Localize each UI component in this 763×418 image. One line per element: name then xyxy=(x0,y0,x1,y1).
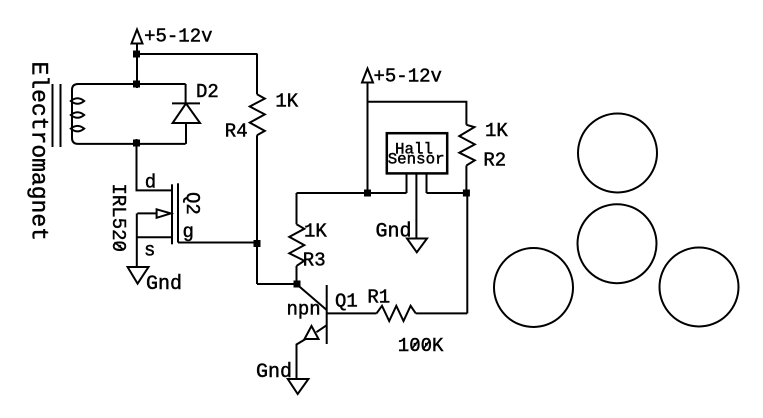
transistor Q1 xyxy=(297,285,377,380)
svg-text:100K: 100K xyxy=(398,335,444,357)
svg-text:+5-12v: +5-12v xyxy=(144,25,212,47)
resistor R2 xyxy=(459,125,475,193)
power symbol +5-12v (right supply) xyxy=(362,69,373,194)
svg-text:Q2: Q2 xyxy=(181,192,203,215)
resistor R3 xyxy=(289,193,304,284)
svg-text:R3: R3 xyxy=(303,249,326,271)
svg-text:s: s xyxy=(144,239,155,261)
svg-text:Gnd: Gnd xyxy=(376,221,412,244)
wire hall right pin to R2 node xyxy=(427,192,467,194)
pin hall left xyxy=(406,174,408,193)
svg-text:1K: 1K xyxy=(485,120,508,142)
svg-text:Q1: Q1 xyxy=(335,291,358,313)
svg-text:R4: R4 xyxy=(225,121,248,143)
wire R1 to R2 bottom xyxy=(466,193,468,313)
resistor R1 xyxy=(377,306,468,321)
electromagnet core xyxy=(53,84,61,147)
svg-text:IRL520: IRL520 xyxy=(107,184,129,252)
ground (hall sensor) xyxy=(407,239,427,253)
inductor coil xyxy=(71,84,84,144)
node coil top junction xyxy=(133,81,140,88)
resistor R4 xyxy=(250,54,265,284)
svg-text:R1: R1 xyxy=(367,287,390,309)
pin hall middle xyxy=(415,174,417,238)
hall sensor box xyxy=(387,133,447,173)
wire R4 bottom to R3 node xyxy=(257,283,297,285)
svg-text:Gnd: Gnd xyxy=(146,273,182,296)
svg-text:D2: D2 xyxy=(196,81,219,103)
wire coil bottom to mosfet drain xyxy=(137,139,172,190)
svg-text:1K: 1K xyxy=(304,220,327,242)
node R3 bottom junction xyxy=(294,281,301,288)
svg-text:Sensor: Sensor xyxy=(388,150,445,168)
wire R3 top to supply2 xyxy=(297,192,407,194)
ground (mosfet source) xyxy=(128,267,149,284)
svg-text:+5-12v: +5-12v xyxy=(374,65,442,87)
magnet disc left xyxy=(494,248,573,327)
wire supply to R4 top xyxy=(137,53,258,55)
svg-text:Electromagnet: Electromagnet xyxy=(26,62,52,241)
magnet disc top xyxy=(578,114,657,193)
svg-text:d: d xyxy=(145,172,156,194)
svg-text:R2: R2 xyxy=(483,150,506,172)
ground (Q1 emitter) xyxy=(288,379,309,394)
svg-text:g: g xyxy=(183,221,194,243)
magnet disc middle xyxy=(578,204,657,283)
node gate junction xyxy=(254,240,261,247)
svg-text:1K: 1K xyxy=(275,91,298,113)
wire gate to R4 node xyxy=(178,242,257,244)
wire coil bottom edge xyxy=(78,143,186,145)
diode D2 xyxy=(172,84,200,144)
svg-text:npn: npn xyxy=(287,299,321,321)
wire coil top edge xyxy=(78,83,186,85)
node supply junction xyxy=(133,51,140,58)
label IRL520 xyxy=(107,184,129,252)
magnet disc right xyxy=(660,248,739,327)
svg-text:Gnd: Gnd xyxy=(256,361,292,384)
pin hall right xyxy=(426,174,428,193)
node supply2 junction xyxy=(364,190,371,197)
wire supply2 top to R2 xyxy=(368,102,467,125)
node coil bottom junction xyxy=(133,140,140,147)
node R2 junction xyxy=(463,190,470,197)
power symbol +5-12v (left supply) xyxy=(132,30,143,89)
mosfet Q2 xyxy=(137,183,178,267)
